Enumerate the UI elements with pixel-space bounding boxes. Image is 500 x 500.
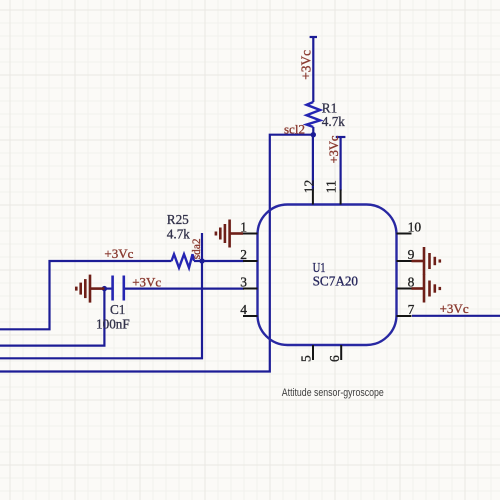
svg-text:11: 11 [323,180,338,193]
svg-text:R25: R25 [167,212,189,227]
svg-text:scl2: scl2 [284,122,305,137]
svg-text:4: 4 [240,302,247,317]
svg-text:+3Vc: +3Vc [104,246,133,261]
svg-text:+3Vc: +3Vc [132,274,161,289]
svg-text:2: 2 [240,247,247,262]
svg-text:+3Vc: +3Vc [299,50,314,80]
svg-text:9: 9 [408,247,415,262]
svg-text:C1: C1 [110,302,125,317]
svg-text:+3Vc: +3Vc [440,301,469,316]
svg-text:sda2: sda2 [191,238,203,259]
svg-text:10: 10 [408,219,422,234]
svg-text:4.7k: 4.7k [322,114,345,129]
svg-text:Attitude sensor-gyroscope: Attitude sensor-gyroscope [282,387,384,399]
svg-text:6: 6 [327,355,342,362]
svg-text:12: 12 [301,180,316,194]
svg-text:4.7k: 4.7k [167,226,190,241]
svg-text:100nF: 100nF [96,316,130,331]
svg-text:1: 1 [240,219,247,234]
svg-text:5: 5 [299,355,314,362]
svg-text:+3Vc: +3Vc [327,135,341,163]
svg-text:7: 7 [408,302,415,317]
svg-text:3: 3 [240,274,247,289]
svg-text:8: 8 [408,274,415,289]
svg-text:SC7A20: SC7A20 [313,273,359,288]
